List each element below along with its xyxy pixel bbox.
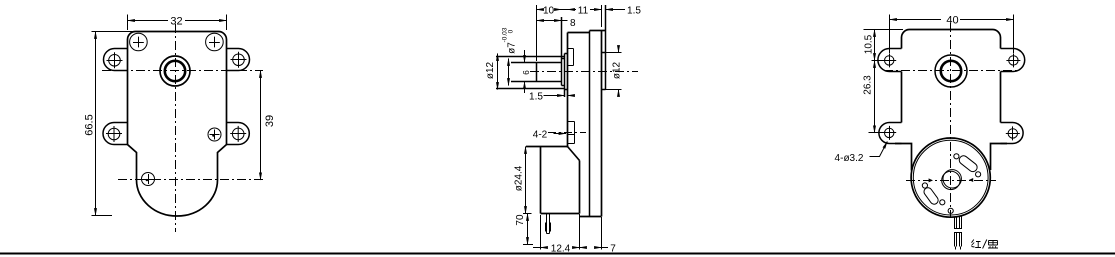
dimension phi12 right	[606, 46, 622, 93]
label red/black wires	[971, 240, 998, 249]
lower-right mounting ear	[227, 123, 250, 145]
shaft centerline	[530, 71, 638, 73]
upper-right ear lobe	[1001, 49, 1025, 72]
svg-text:1.5: 1.5	[529, 91, 543, 102]
vertical centerline right view	[950, 23, 952, 217]
upper-left ear lobe	[878, 49, 902, 72]
dimension 7	[580, 217, 609, 250]
gearbox inner wall	[589, 31, 591, 217]
motor terminal pin	[546, 214, 551, 234]
motor horizontal centerline	[906, 180, 996, 182]
svg-text:4-2: 4-2	[533, 129, 548, 140]
frame bottom border line	[0, 253, 1115, 255]
svg-text:ø12: ø12	[612, 61, 623, 79]
upper-right ear hole	[231, 52, 247, 68]
dimension 12.4	[533, 214, 580, 250]
svg-text:6: 6	[522, 70, 531, 75]
dimension 39	[260, 71, 262, 180]
output shaft	[511, 17, 565, 86]
lower-right ear lobe	[1001, 123, 1024, 144]
horizontal centerline lower	[118, 179, 263, 181]
top-right screw hole	[206, 33, 224, 51]
upper-right mounting ear	[227, 49, 250, 71]
gearbox plate back face	[601, 31, 603, 217]
dimension 66.5	[92, 32, 134, 216]
bottom screw hole	[142, 173, 155, 186]
motor vent hole 4	[940, 200, 945, 205]
dimension 1.5 rear	[602, 5, 626, 27]
dimension 8	[537, 20, 568, 22]
bottom edge left with drop	[895, 144, 912, 171]
motor vent hole 1	[954, 154, 959, 159]
svg-text:ø7: ø7	[507, 42, 518, 54]
svg-text:ø24.4: ø24.4	[514, 165, 525, 191]
upper-left plate hole	[882, 53, 896, 67]
top-left screw hole	[130, 33, 148, 51]
gearbox plate front face	[567, 33, 569, 148]
svg-text:10.5: 10.5	[864, 34, 875, 54]
bottom edge right with drop	[991, 144, 1008, 171]
dimension 1.5 boss	[544, 95, 573, 97]
svg-text:39: 39	[264, 115, 276, 127]
motor lead wires	[954, 217, 962, 250]
motor vent hole 3	[922, 183, 927, 188]
lower-left ear hole	[106, 126, 122, 142]
lower-right ear hole	[230, 126, 246, 142]
tab centerline	[548, 132, 586, 134]
svg-text:11: 11	[578, 5, 589, 16]
front shaft boss	[496, 54, 568, 98]
dimension phi7 with tolerance	[508, 59, 510, 86]
dimension 4-2 tab	[554, 133, 567, 135]
svg-text:7: 7	[610, 243, 616, 254]
central output shaft hole	[160, 56, 190, 86]
svg-text:4-ø3.2: 4-ø3.2	[835, 153, 864, 164]
motor vent hole 5	[948, 208, 953, 213]
dimension 10	[537, 5, 568, 61]
svg-text:66.5: 66.5	[84, 114, 96, 135]
rear center boss	[935, 55, 967, 87]
svg-text:ø12: ø12	[485, 61, 496, 79]
motor terminal marker right	[969, 178, 973, 182]
svg-text:-0.03: -0.03	[502, 27, 509, 42]
lower-right plate hole	[1006, 126, 1020, 140]
svg-text:1.5: 1.5	[627, 5, 641, 16]
body outline	[128, 32, 227, 217]
dimension 10.5	[864, 30, 904, 61]
upper-right plate hole	[1006, 53, 1020, 67]
dimension 6 flat	[524, 50, 526, 93]
svg-text:32: 32	[170, 15, 182, 27]
mid-right screw hole	[208, 128, 221, 141]
dimension 11	[568, 9, 602, 11]
gearbox top edge	[568, 32, 590, 34]
motor vent hole 2	[976, 172, 981, 177]
vertical centerline	[175, 24, 177, 232]
motor slot bottom-left	[922, 186, 939, 206]
lower-left mounting ear	[103, 123, 127, 145]
dimension 40	[890, 15, 1014, 54]
dimension 70	[523, 214, 533, 245]
svg-text:40: 40	[946, 14, 958, 26]
svg-text:0: 0	[508, 29, 515, 33]
motor can rear circle	[911, 138, 990, 217]
dimension phi12 left	[497, 54, 499, 90]
label 4-phi3.2	[870, 142, 888, 157]
motor hub circles	[942, 170, 962, 190]
boss horizontal centerline	[884, 70, 1018, 72]
motor slot top-right	[958, 154, 979, 173]
rear bearing boss	[602, 5, 606, 90]
svg-text:8: 8	[570, 18, 576, 29]
svg-text:12.4: 12.4	[551, 243, 571, 254]
dimension phi24.4	[525, 147, 527, 214]
motor can side view	[526, 147, 580, 214]
lower-left plate hole	[882, 126, 896, 140]
mounting tab	[568, 122, 575, 144]
svg-text:10: 10	[543, 5, 555, 16]
horizontal centerline through shaft	[102, 70, 263, 72]
rear flange top edge	[590, 30, 606, 32]
svg-text:26.3: 26.3	[863, 75, 874, 95]
lower-left ear lobe	[879, 123, 902, 144]
internal bearing	[568, 49, 574, 66]
svg-text:70: 70	[515, 214, 526, 226]
dimension 26.3	[869, 61, 884, 133]
motor terminal marker left	[929, 178, 933, 182]
body outline top	[902, 30, 1001, 123]
upper-left mounting ear	[104, 49, 128, 71]
dimension 32	[128, 15, 227, 31]
gearbox bottom edge	[580, 216, 602, 218]
upper-left ear hole	[107, 52, 123, 68]
